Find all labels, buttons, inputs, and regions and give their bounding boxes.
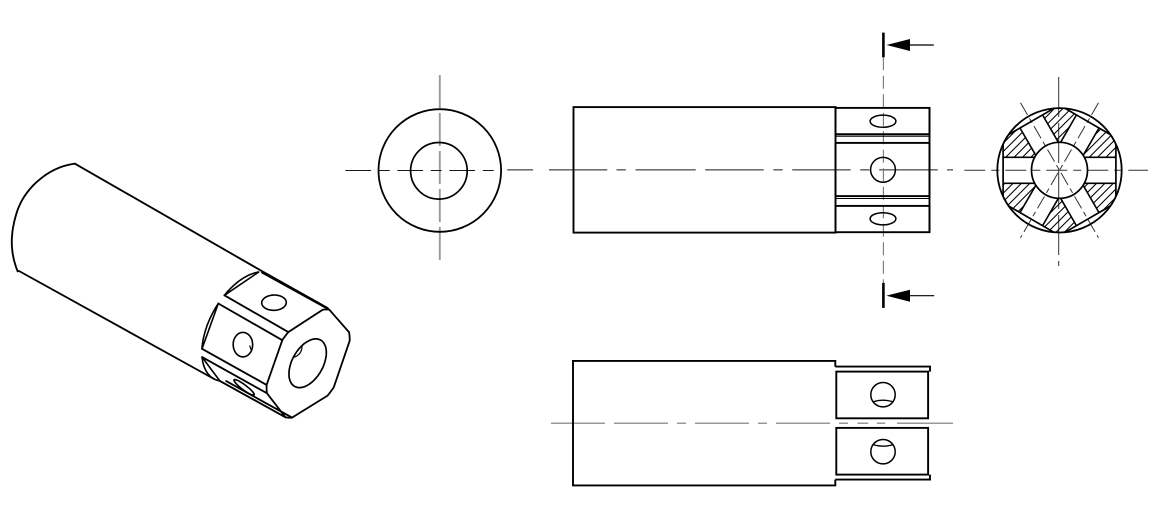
- top view main cylinder rectangle: [574, 107, 836, 233]
- hex corner strip line 354a: [261, 270, 328, 308]
- hole 264 bore breakout arc0: [250, 346, 252, 350]
- top view horizontal centerline: [507, 169, 953, 171]
- hole on flat 324: [262, 295, 287, 310]
- bottom view lower hole circle: [871, 440, 895, 464]
- section view horizontal centerline: [964, 169, 1148, 171]
- channel edge flat300 s-1: [1083, 185, 1099, 212]
- section hatching: [739, 100, 1159, 240]
- section view 60deg centerline: [1021, 103, 1099, 238]
- channel edge flat240 s1: [1020, 185, 1036, 212]
- hex end face outline: [267, 310, 350, 418]
- section view bore circle: [1032, 142, 1088, 198]
- top view hex corner tangent line upper: [836, 135, 930, 137]
- channel edge flat300 s1: [1061, 198, 1077, 225]
- top view hole ellipse upper flat: [870, 115, 896, 127]
- hex corner strip line 174a: [226, 381, 292, 418]
- bottom view upper band (flat): [836, 372, 928, 419]
- bottom view horizontal centerline: [551, 422, 953, 424]
- section view hexagon flats: [1115, 144, 1117, 196]
- bottom view lower hole breakout chord: [873, 445, 893, 447]
- bottom view top edge-on flat line: [835, 367, 930, 372]
- section line bottom thick bar: [882, 283, 885, 308]
- bottom view upper hole breakout chord: [873, 400, 893, 402]
- shoulder chord flat324: [224, 272, 258, 295]
- bottom view bottom edge-on flat line: [835, 475, 930, 480]
- back hole 84 breakout in bore 0: [294, 350, 302, 357]
- front view vertical centerline: [439, 75, 441, 263]
- shoulder chord flat204: [202, 357, 220, 381]
- hole on flat 264: [233, 332, 253, 357]
- hex corner strip line 234a: [202, 357, 267, 393]
- channel edge flat0 s1: [1084, 182, 1116, 184]
- channel edge flat120 s1: [1043, 115, 1059, 142]
- channel edge flat120 s-1: [1020, 128, 1036, 155]
- front view bore circle: [411, 143, 468, 200]
- shoulder arc flat324: [224, 272, 258, 295]
- back hole 84 breakout in bore 1: [300, 346, 303, 351]
- top view hex band 3 (lower flat): [836, 206, 930, 232]
- section view vertical centerline: [1058, 77, 1060, 266]
- top view hex band 1 (upper flat): [836, 108, 930, 134]
- channel edge flat240 s-1: [1043, 198, 1059, 225]
- bore hole: [289, 339, 326, 388]
- shoulder chord flat264: [202, 304, 218, 349]
- top view hex band 2 (middle flat): [836, 143, 930, 196]
- cylinder bottom silhouette: [19, 271, 214, 379]
- hex corner strip line 234b: [202, 349, 267, 385]
- bottom view main cylinder outline with end steps: [573, 361, 835, 486]
- channel edge flat180 s-1: [1003, 182, 1035, 184]
- hex corner strip line 174b: [220, 381, 286, 417]
- bottom view lower band (flat): [836, 428, 928, 475]
- channel edge flat180 s1: [1003, 156, 1035, 158]
- top view hole circle middle flat: [871, 157, 896, 182]
- hex corner strip line 294a: [218, 304, 282, 341]
- cylinder cap rim: [12, 164, 75, 272]
- shoulder arc flat204: [202, 357, 220, 381]
- section arrow bottom: [886, 290, 910, 302]
- front view outer circle (cylinder): [379, 109, 502, 232]
- section view outer circle: [997, 108, 1121, 232]
- top view hole ellipse lower flat: [870, 213, 896, 225]
- shoulder arc flat264: [202, 304, 218, 349]
- channel edge flat0 s-1: [1084, 156, 1116, 158]
- cylinder top silhouette: [75, 164, 261, 271]
- section view 120deg centerline: [1021, 103, 1099, 238]
- front view horizontal centerline: [345, 170, 501, 172]
- channel edge flat60 s1: [1083, 128, 1099, 155]
- bottom view upper hole circle: [871, 383, 895, 407]
- top view hex right end edge: [929, 108, 931, 232]
- hex corner strip line 354b: [262, 273, 329, 310]
- hole on flat 204: [234, 380, 254, 396]
- channel edge flat60 s-1: [1061, 115, 1077, 142]
- section line top thick bar: [882, 33, 885, 58]
- top view hex corner tangent line lower: [836, 198, 930, 200]
- section line B-B dashed part: [882, 57, 884, 283]
- section arrow top: [886, 39, 910, 51]
- hex corner strip line 294b: [224, 295, 288, 332]
